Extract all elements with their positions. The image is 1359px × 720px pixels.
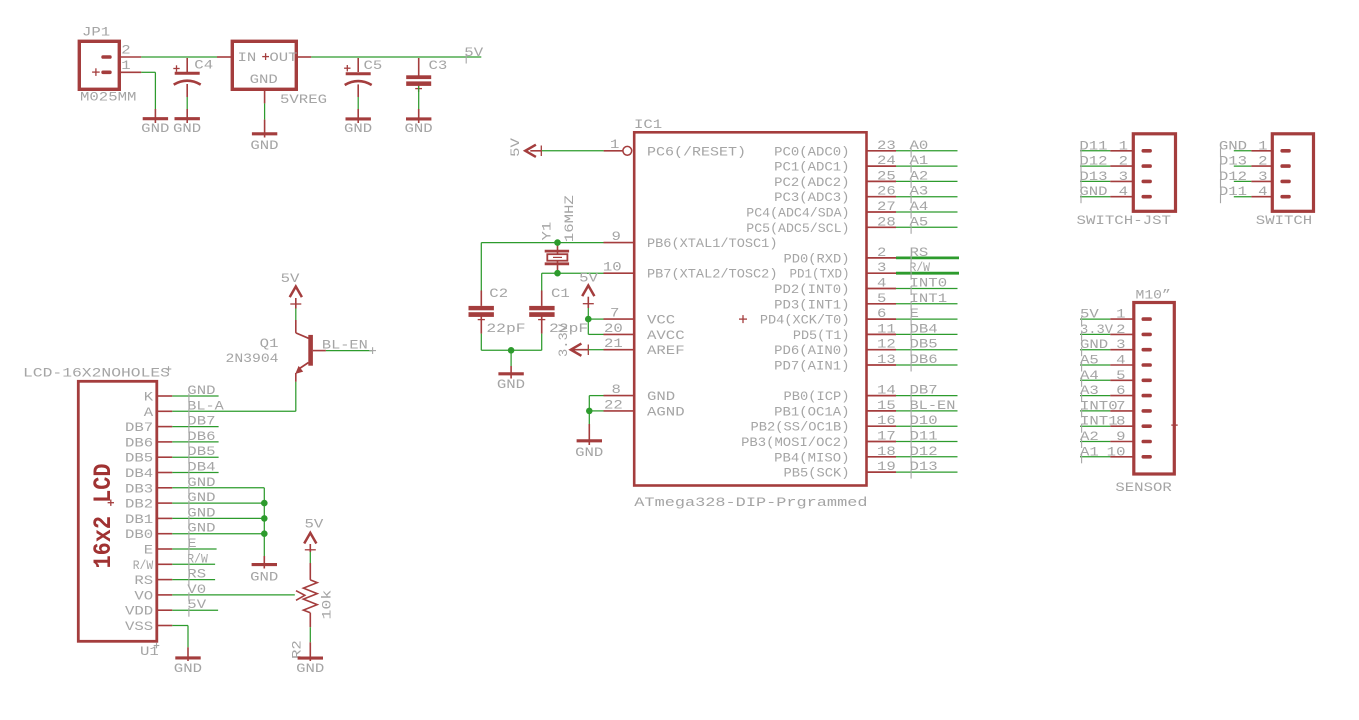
svg-text:DB7: DB7 <box>125 420 153 435</box>
wire SWITCH D11 <box>1234 196 1273 198</box>
junction crystal bottom <box>554 270 561 277</box>
pin 7 label <box>610 306 619 321</box>
pin stub pin7 <box>604 318 635 320</box>
pin 13 label <box>877 352 896 367</box>
label 16MHZ <box>562 195 577 242</box>
net label D11 SWITCH <box>1219 184 1247 203</box>
svg-text:1: 1 <box>610 137 620 152</box>
wire net DB5 <box>896 349 958 351</box>
origin cross LCD <box>108 500 114 506</box>
IC1 left pin names <box>647 144 778 419</box>
svg-text:1: 1 <box>1258 138 1268 153</box>
pin 1 label <box>121 58 131 73</box>
label Q1 <box>260 336 279 351</box>
svg-text:RS: RS <box>910 245 929 260</box>
pin stub pin27 <box>867 211 897 213</box>
svg-text:17: 17 <box>877 429 896 444</box>
svg-text:A1: A1 <box>910 153 929 168</box>
label 10k <box>320 589 335 619</box>
label Y1 <box>540 221 555 240</box>
svg-text:DB7: DB7 <box>187 414 215 429</box>
wire net A5 <box>896 226 958 228</box>
wire collector <box>295 298 297 333</box>
label C2 <box>489 286 508 301</box>
wire emitter to BL-A <box>295 373 297 411</box>
svg-text:A2: A2 <box>1080 429 1099 444</box>
svg-text:1: 1 <box>121 58 131 73</box>
pin 2 label SWITCH <box>1258 154 1267 169</box>
svg-text:PB0(ICP): PB0(ICP) <box>784 389 850 404</box>
svg-text:RS: RS <box>134 573 153 588</box>
svg-text:28: 28 <box>877 214 896 229</box>
svg-text:19: 19 <box>877 459 896 474</box>
svg-text:26: 26 <box>877 184 896 199</box>
svg-text:D13: D13 <box>1219 154 1247 169</box>
svg-text:GND: GND <box>187 521 215 536</box>
label M025MM <box>80 89 136 104</box>
pin 28 label <box>877 214 896 229</box>
LCD module U1 box <box>78 381 157 641</box>
origin cross IC1 <box>739 315 747 323</box>
svg-text:4: 4 <box>1258 184 1268 199</box>
net label A3 SENSOR <box>1080 383 1099 402</box>
svg-text:5V: 5V <box>508 138 523 157</box>
pin 8 label <box>612 382 621 397</box>
svg-text:SENSOR: SENSOR <box>1115 480 1172 495</box>
svg-text:22pF: 22pF <box>486 321 525 336</box>
pin 4 label <box>877 276 887 291</box>
wire caps to ground <box>510 350 512 378</box>
IC1 right pin names <box>741 144 849 480</box>
svg-text:GND: GND <box>187 383 215 398</box>
pin stub pin9 <box>604 242 635 244</box>
ground LCD data pins <box>250 565 278 585</box>
supply 3.3V at AREF <box>556 324 589 357</box>
svg-text:A1: A1 <box>1080 444 1099 459</box>
svg-text:6: 6 <box>877 306 886 321</box>
wire net D11 <box>896 441 958 443</box>
capacitor C1 <box>529 291 554 351</box>
wire V0 to potentiometer <box>172 594 294 596</box>
svg-text:A3: A3 <box>910 184 929 199</box>
connector SWITCH box <box>1272 134 1313 212</box>
wire 5V rail JP1 to regulator IN <box>141 56 217 58</box>
net label A3 <box>910 184 929 204</box>
svg-text:2: 2 <box>877 245 886 260</box>
net label BL-EN <box>322 338 376 354</box>
svg-text:GND: GND <box>174 661 202 676</box>
label 16x2 LCD <box>89 464 118 569</box>
pin stub JP1-1 <box>119 71 141 73</box>
wire SENSOR A2 <box>1080 441 1134 443</box>
wire regulator GND <box>264 89 266 137</box>
svg-text:PD7(AIN1): PD7(AIN1) <box>774 359 849 374</box>
svg-text:INT1: INT1 <box>910 291 948 306</box>
pin stub pin5 <box>867 303 897 305</box>
svg-text:DB4: DB4 <box>125 466 153 481</box>
pin 9 label <box>612 229 621 244</box>
net label D13 SWITCH <box>1219 154 1247 173</box>
pin 2 label <box>121 43 130 58</box>
svg-text:8: 8 <box>1116 414 1125 429</box>
net label BL-EN <box>910 398 956 418</box>
svg-text:K: K <box>144 390 154 405</box>
svg-text:PD4(XCK/T0): PD4(XCK/T0) <box>760 313 850 328</box>
net label DB4 <box>910 321 938 341</box>
svg-text:1: 1 <box>1116 307 1126 322</box>
pin 3 label SWITCH <box>1258 169 1267 184</box>
svg-text:C2: C2 <box>489 286 508 301</box>
pin stub pin10 <box>604 272 635 274</box>
label SENSOR <box>1115 480 1172 495</box>
wire XTAL2 net <box>542 273 604 290</box>
svg-text:DB7: DB7 <box>910 383 938 398</box>
svg-text:M10”: M10” <box>1136 287 1171 302</box>
svg-text:VCC: VCC <box>647 313 675 328</box>
svg-text:5V: 5V <box>464 45 483 60</box>
svg-text:10: 10 <box>603 260 622 275</box>
svg-text:IN: IN <box>238 50 257 65</box>
pin stub pin20 <box>604 333 635 335</box>
wire net D13 <box>896 471 958 473</box>
pin 19 label <box>877 459 896 474</box>
wire SENSOR 3.3V <box>1080 333 1134 335</box>
svg-text:VSS: VSS <box>125 619 153 634</box>
svg-text:SWITCH-JST: SWITCH-JST <box>1077 213 1172 228</box>
svg-text:D12: D12 <box>1079 154 1107 169</box>
junction caps to ground <box>508 347 515 354</box>
pin stub pin17 <box>867 441 897 443</box>
svg-text:20: 20 <box>604 321 623 336</box>
svg-text:C1: C1 <box>551 286 570 301</box>
svg-text:JP1: JP1 <box>82 25 110 40</box>
pin 1 label SENSOR <box>1116 307 1126 322</box>
pin 24 label <box>877 153 896 168</box>
junction crystal top <box>554 239 561 246</box>
net label 3.3V SENSOR <box>1080 322 1113 341</box>
svg-text:DB6: DB6 <box>187 429 215 444</box>
pin stub pin1 <box>604 150 623 152</box>
svg-text:15: 15 <box>877 398 896 413</box>
pin 9 label SENSOR <box>1116 429 1125 444</box>
net label A2 SENSOR <box>1080 429 1099 448</box>
wire net A0 <box>896 150 958 152</box>
svg-text:27: 27 <box>877 199 896 214</box>
svg-text:A3: A3 <box>1080 383 1099 398</box>
svg-text:5VREG: 5VREG <box>280 92 327 107</box>
svg-text:PB2(SS/OC1B): PB2(SS/OC1B) <box>751 420 850 435</box>
svg-text:10: 10 <box>1107 444 1126 459</box>
pin 2 label SENSOR <box>1116 322 1125 337</box>
net label INT0 <box>910 276 948 296</box>
pin stub pin16 <box>867 425 897 427</box>
pin stub pin6 <box>867 318 897 320</box>
wire net DB4 <box>896 333 958 335</box>
wire net DB6 <box>896 364 958 366</box>
svg-text:IC1: IC1 <box>634 117 662 132</box>
net label A4 <box>910 199 929 219</box>
wire net R/W <box>896 272 959 275</box>
pin stub pin8 <box>604 395 635 397</box>
svg-text:3.3V: 3.3V <box>556 324 571 357</box>
svg-text:R2: R2 <box>289 640 304 659</box>
base wire BL-EN <box>313 350 372 352</box>
supply 5V at R2 <box>304 517 323 550</box>
svg-text:7: 7 <box>610 306 619 321</box>
wire SWITCH GND <box>1234 150 1273 152</box>
svg-text:PD5(T1): PD5(T1) <box>793 328 850 343</box>
svg-text:DB6: DB6 <box>910 352 938 367</box>
svg-text:PD6(AIN0): PD6(AIN0) <box>774 343 849 358</box>
LCD pin names <box>125 390 153 635</box>
pin stub pin23 <box>867 150 897 152</box>
svg-text:5: 5 <box>1116 368 1125 383</box>
svg-text:RS: RS <box>187 567 206 582</box>
pin 12 label <box>877 337 896 352</box>
svg-text:PB6(XTAL1/TOSC1): PB6(XTAL1/TOSC1) <box>647 236 778 251</box>
ground under C3 <box>405 119 433 136</box>
svg-text:14: 14 <box>877 383 896 398</box>
wire JST D12 <box>1080 165 1133 167</box>
LCD net wires <box>172 396 264 610</box>
pin 6 label <box>877 306 886 321</box>
svg-text:22: 22 <box>604 397 623 412</box>
net label DB7 <box>910 383 938 403</box>
connector SWITCH-JST box <box>1133 134 1175 212</box>
junction VCC <box>585 316 592 323</box>
svg-text:A4: A4 <box>1080 368 1099 383</box>
wire net E <box>896 318 958 320</box>
svg-text:D12: D12 <box>910 444 938 459</box>
pin stub pin14 <box>867 395 897 397</box>
svg-text:PC2(ADC2): PC2(ADC2) <box>774 175 849 190</box>
svg-text:R/W: R/W <box>910 260 931 275</box>
svg-text:4: 4 <box>1116 353 1126 368</box>
label JP1 <box>82 25 110 40</box>
svg-text:D11: D11 <box>910 429 938 444</box>
pin stub pin15 <box>867 410 897 412</box>
pin 26 label <box>877 184 896 199</box>
svg-text:4: 4 <box>877 276 887 291</box>
svg-text:LCD-16X2NOHOLES: LCD-16X2NOHOLES <box>23 366 170 381</box>
wire net BL-EN <box>896 410 958 412</box>
ground under caps <box>497 374 525 392</box>
connector SENSOR box <box>1134 303 1178 475</box>
svg-text:BL-EN: BL-EN <box>322 338 368 353</box>
net label 5V SENSOR <box>1080 307 1099 326</box>
wire net D12 <box>896 456 958 458</box>
pin stub pin4 <box>867 288 897 290</box>
pin stub pin18 <box>867 456 897 458</box>
svg-text:2: 2 <box>1258 154 1267 169</box>
svg-text:16x2 LCD: 16x2 LCD <box>89 464 118 569</box>
wire SENSOR A1 <box>1080 456 1134 458</box>
wire SWITCH D12 <box>1234 180 1273 182</box>
svg-text:C3: C3 <box>429 58 448 73</box>
pin 6 label SENSOR <box>1116 383 1125 398</box>
pin stub pin22 <box>604 410 635 412</box>
svg-text:PB4(MISO): PB4(MISO) <box>774 450 849 465</box>
svg-text:GND: GND <box>187 475 215 490</box>
net label D11 <box>910 429 938 449</box>
svg-text:GND: GND <box>1219 138 1247 153</box>
svg-text:9: 9 <box>1116 429 1125 444</box>
pin 11 label <box>877 321 896 336</box>
pin 15 label <box>877 398 896 413</box>
svg-text:18: 18 <box>877 444 896 459</box>
LCD net labels <box>187 383 224 617</box>
svg-text:PD1(TXD): PD1(TXD) <box>790 267 850 282</box>
label GND inside regulator <box>250 72 278 87</box>
svg-text:Q1: Q1 <box>260 336 279 351</box>
svg-text:D11: D11 <box>1079 138 1107 153</box>
svg-text:A5: A5 <box>910 214 929 229</box>
capacitor C5 <box>344 58 372 123</box>
net label E <box>910 306 920 326</box>
net label GND SWITCH <box>1219 138 1247 157</box>
svg-text:GND: GND <box>296 661 324 676</box>
net label A5 SENSOR <box>1080 353 1099 372</box>
label C1 <box>551 286 570 301</box>
junction DB1 gnd <box>261 515 268 522</box>
net label A5 <box>910 214 929 234</box>
svg-text:DB5: DB5 <box>187 444 215 459</box>
net label D12 JST <box>1079 154 1107 173</box>
svg-text:D12: D12 <box>1219 169 1247 184</box>
net label A0 <box>910 138 929 158</box>
pin stub pin26 <box>867 196 897 198</box>
net label D12 <box>910 444 938 464</box>
pin 1 label JST <box>1119 138 1129 153</box>
pin stub pin12 <box>867 349 897 351</box>
svg-text:DB4: DB4 <box>187 460 215 475</box>
pin stub pin19 <box>867 471 897 473</box>
wire 5V to reset <box>530 150 603 152</box>
net label A1 SENSOR <box>1080 444 1099 463</box>
capacitor C3 <box>406 58 431 123</box>
net label D13 <box>910 459 938 479</box>
wire net A2 <box>896 180 958 182</box>
svg-text:DB3: DB3 <box>125 481 153 496</box>
svg-text:16: 16 <box>877 413 896 428</box>
wire net RS <box>896 256 959 259</box>
svg-text:5V: 5V <box>579 270 598 285</box>
svg-text:21: 21 <box>604 336 623 351</box>
wire SENSOR INT0 <box>1080 410 1134 412</box>
wire gnd bus to ground <box>263 488 265 569</box>
net label GND JST <box>1079 184 1107 203</box>
pin stub pin28 <box>867 226 897 228</box>
pin 4 label JST <box>1119 184 1129 199</box>
potentiometer R2 <box>296 580 317 613</box>
svg-text:PC0(ADC0): PC0(ADC0) <box>774 144 849 159</box>
net label DB6 <box>910 352 938 372</box>
pin 4 label SENSOR <box>1116 353 1126 368</box>
net label A1 <box>910 153 929 173</box>
svg-text:7: 7 <box>1116 398 1125 413</box>
svg-text:2: 2 <box>121 43 130 58</box>
wire SENSOR GND <box>1080 349 1134 351</box>
svg-text:GND: GND <box>647 389 675 404</box>
ground under C5 <box>344 119 372 136</box>
svg-text:3: 3 <box>1258 169 1267 184</box>
wire SENSOR INT1 <box>1080 425 1134 427</box>
net label RS <box>910 245 929 265</box>
svg-text:PB7(XTAL2/TOSC2): PB7(XTAL2/TOSC2) <box>647 267 778 282</box>
junction DB0 gnd <box>261 530 268 537</box>
LCD pin stubs <box>157 396 173 626</box>
wire net INT1 <box>896 303 958 305</box>
wire JST D11 <box>1080 150 1133 152</box>
svg-text:2N3904: 2N3904 <box>226 351 279 366</box>
svg-text:GND: GND <box>344 121 372 136</box>
label IN <box>238 50 257 65</box>
svg-text:3: 3 <box>1119 169 1128 184</box>
wire SENSOR A5 <box>1080 364 1134 366</box>
svg-text:A4: A4 <box>910 199 929 214</box>
svg-text:PC1(ADC1): PC1(ADC1) <box>774 160 849 175</box>
svg-text:GND: GND <box>1079 184 1107 199</box>
svg-text:6: 6 <box>1116 383 1125 398</box>
svg-text:9: 9 <box>612 229 621 244</box>
pin stub pin13 <box>867 364 897 366</box>
label SWITCH <box>1256 213 1312 228</box>
svg-text:PC4(ADC4/SDA): PC4(ADC4/SDA) <box>746 206 849 221</box>
svg-text:E: E <box>144 543 154 558</box>
pin 3 label JST <box>1119 169 1128 184</box>
pin 1 reset circle <box>623 146 632 155</box>
svg-text:GND: GND <box>173 121 201 136</box>
svg-text:11: 11 <box>877 321 896 336</box>
svg-text:GND: GND <box>250 570 278 585</box>
wire JST GND <box>1080 196 1133 198</box>
wire net D10 <box>896 425 958 427</box>
pin 2 label <box>877 245 886 260</box>
svg-text:PB3(MOSI/OC2): PB3(MOSI/OC2) <box>741 435 849 450</box>
svg-text:A: A <box>144 405 154 420</box>
label C4 <box>194 58 213 73</box>
wire VSS to ground <box>172 626 188 662</box>
IC U1 box IC1 <box>634 132 866 485</box>
svg-text:D13: D13 <box>910 459 938 474</box>
svg-text:INT1: INT1 <box>1080 414 1118 429</box>
pin stub pin11 <box>867 333 897 335</box>
pin stub pin25 <box>867 180 897 182</box>
wire net A3 <box>896 196 958 198</box>
connector JP1 <box>79 41 119 89</box>
pin 10 label <box>603 260 622 275</box>
svg-text:PD3(INT1): PD3(INT1) <box>774 297 849 312</box>
voltage regulator 5VREG <box>232 41 296 89</box>
pin 2 label JST <box>1119 154 1128 169</box>
pin stub pin21 <box>604 349 635 351</box>
label M10” <box>1136 287 1171 302</box>
svg-text:VDD: VDD <box>125 604 153 619</box>
svg-text:PC3(ADC3): PC3(ADC3) <box>774 190 849 205</box>
pin 20 label <box>604 321 623 336</box>
svg-text:5V: 5V <box>1080 307 1099 322</box>
svg-text:AREF: AREF <box>647 343 685 358</box>
svg-text:DB6: DB6 <box>125 435 153 450</box>
label SWITCH-JST <box>1077 213 1172 228</box>
label 22pF for C1 <box>549 321 588 336</box>
supply 5V at reset <box>508 138 541 157</box>
pin stub pin24 <box>867 165 897 167</box>
svg-text:GND: GND <box>187 490 215 505</box>
svg-text:R/W: R/W <box>187 551 208 566</box>
svg-text:PD0(RXD): PD0(RXD) <box>784 251 850 266</box>
svg-text:3: 3 <box>877 260 886 275</box>
